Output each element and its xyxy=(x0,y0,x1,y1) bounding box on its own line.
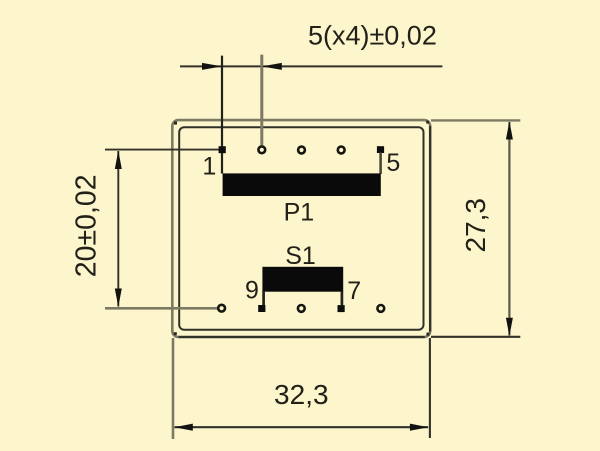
dimension 32,3 arrow right xyxy=(410,424,429,431)
dimension 20 top extension line xyxy=(105,149,222,151)
dimension 20 arrow up xyxy=(115,151,122,169)
pin label 5 xyxy=(386,149,400,177)
svg-text:9: 9 xyxy=(245,277,259,305)
transformer body outer outline right edge (dark) xyxy=(429,126,431,332)
dimension 5(x4) line xyxy=(180,65,442,67)
winding S1 left leg xyxy=(262,291,265,305)
pin label 1 xyxy=(202,152,216,180)
dimension 27,3 line xyxy=(508,122,510,336)
pin label 9 xyxy=(245,277,259,305)
svg-text:32,3: 32,3 xyxy=(274,379,329,410)
dimension 20 line xyxy=(117,151,119,307)
dimension 20 arrow down xyxy=(115,289,122,307)
pin 2 (open circle) xyxy=(258,146,265,153)
dimension 32,3 text xyxy=(274,379,329,410)
pin 1 (filled square) xyxy=(219,146,226,153)
body outline corner dot top-right xyxy=(426,121,429,124)
dimension 27,3 arrow down xyxy=(506,318,513,336)
dimension 32,3 left extension line xyxy=(172,338,175,439)
svg-text:7: 7 xyxy=(347,277,361,305)
pin 8 (open circle) xyxy=(298,305,305,312)
dimension 5(x4) arrow pointing right xyxy=(202,63,222,70)
winding S1 bar xyxy=(262,267,343,292)
winding P1 label xyxy=(284,198,315,226)
body outline corner dot bottom-left xyxy=(174,332,177,335)
dimension 27,3 top extension line xyxy=(431,119,520,121)
winding S1 right leg xyxy=(341,291,344,305)
dimension 32,3 arrow left xyxy=(174,424,193,431)
dimension 20 text xyxy=(71,174,103,277)
dimension 5(x4) extension line pin 1 xyxy=(221,56,223,174)
pin 6 (open circle, bottom right) xyxy=(377,305,384,312)
svg-text:20±0,02: 20±0,02 xyxy=(71,174,103,277)
pin label 7 xyxy=(347,277,361,305)
body outline corner dot bottom-right xyxy=(426,333,429,336)
pin 7 (filled square) xyxy=(338,305,345,312)
svg-text:S1: S1 xyxy=(285,242,316,270)
dimension 5(x4) text xyxy=(308,20,437,50)
pin 3 (open circle) xyxy=(298,147,305,154)
dimension 32,3 line xyxy=(175,426,429,428)
pin 4 (open circle) xyxy=(338,147,345,154)
dimension 5(x4) extension line pin 2 (gray) xyxy=(260,55,263,146)
transformer body outer outline bottom edge (dark) xyxy=(179,336,425,338)
transformer body outer outline xyxy=(172,120,430,337)
pin 10 (open circle, bottom left) xyxy=(218,305,225,312)
dimension 27,3 arrow up xyxy=(506,121,513,139)
body outline corner dot top-left xyxy=(174,122,177,125)
pin 9 (filled square) xyxy=(258,305,265,312)
svg-text:27,3: 27,3 xyxy=(460,198,491,253)
dimension 27,3 text xyxy=(460,198,491,253)
dimension 5(x4) arrow pointing left xyxy=(262,63,282,70)
dimension 32,3 right extension line xyxy=(429,338,431,438)
winding S1 label xyxy=(285,242,316,270)
dimension 27,3 bottom extension line xyxy=(431,336,520,338)
svg-text:5: 5 xyxy=(386,149,400,177)
dimension 20 bottom extension line xyxy=(105,307,218,310)
winding P1 right leg xyxy=(379,153,382,175)
svg-text:P1: P1 xyxy=(284,198,315,226)
transformer body inner outline xyxy=(179,127,423,330)
pin 5 (filled square) xyxy=(377,146,384,153)
svg-text:5(x4)±0,02: 5(x4)±0,02 xyxy=(308,20,437,50)
winding P1 bar xyxy=(223,173,381,196)
svg-text:1: 1 xyxy=(202,152,216,180)
